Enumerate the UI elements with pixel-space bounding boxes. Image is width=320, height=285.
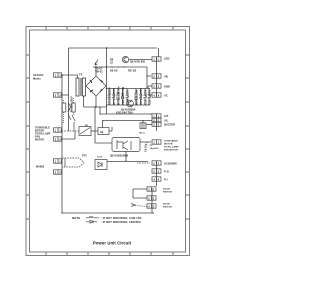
svg-text:P-I: P-I: [164, 178, 168, 182]
svg-text:DOOR: DOOR: [163, 189, 170, 191]
wire right lower bus: [152, 161, 157, 213]
svg-text:22: 22: [110, 62, 113, 65]
svg-text:4: 4: [158, 177, 160, 181]
arrow door: [131, 204, 135, 207]
svg-text:MAINS: MAINS: [36, 166, 45, 169]
svg-text:C6 2200μ16V: C6 2200μ16V: [107, 87, 111, 105]
wire motor pin stub: [62, 131, 76, 139]
connector CN pin VB: [152, 74, 161, 78]
svg-text:1: 1: [158, 140, 160, 144]
connector CN pin VC: [152, 93, 161, 97]
wire rail2: [93, 66, 147, 68]
wire main vertical: [106, 48, 108, 114]
svg-text:4: 4: [153, 93, 155, 97]
svg-text:C9 100μ/10V: C9 100μ/10V: [139, 88, 143, 105]
node rail4: [103, 120, 152, 122]
connector CN pin GND: [152, 84, 161, 88]
svg-text:1: 1: [158, 57, 160, 61]
border ticks left: [26, 55, 30, 219]
wire drop to LED pin: [158, 48, 160, 57]
svg-text:2: 2: [59, 170, 61, 174]
connector CB3 pin1: [54, 159, 62, 163]
relay Q8 box: [112, 138, 140, 152]
connector DS pin2: [147, 196, 156, 200]
svg-text:DOOR: DOOR: [163, 204, 170, 206]
svg-text:C11 1μ/50V: C11 1μ/50V: [147, 89, 151, 104]
wire Q6 to LED pin: [129, 59, 152, 61]
svg-text:RG 5Ω: RG 5Ω: [128, 70, 136, 73]
border outer frame: [26, 27, 190, 256]
svg-text:TURNTABLE: TURNTABLE: [35, 127, 50, 130]
svg-text:1: 1: [153, 140, 155, 144]
wire relay box down: [125, 152, 127, 161]
svg-text:2: 2: [148, 196, 150, 200]
svg-text:P-O: P-O: [164, 170, 169, 174]
svg-text:C7 470μ/16V: C7 470μ/16V: [112, 88, 116, 105]
svg-text:: IF NOT SPECIFIED, 1/4W ±5%: : IF NOT SPECIFIED, 1/4W ±5%: [101, 216, 142, 220]
wire relay box feed: [95, 107, 112, 143]
zener ZD6 strip4: [121, 89, 124, 106]
svg-text:C6: C6: [150, 145, 154, 147]
svg-text:1: 1: [55, 159, 57, 163]
svg-text:C10 1μ/50V: C10 1μ/50V: [143, 89, 147, 104]
buzzer BZ: [140, 123, 146, 129]
transistor Q7 regulator: [127, 100, 134, 107]
svg-text:2: 2: [59, 137, 61, 141]
wire secondary bottom rail: [84, 96, 107, 107]
wire mute rail: [107, 161, 148, 163]
svg-text:2: 2: [153, 161, 155, 165]
connector CN pin VL: [152, 118, 161, 122]
fuse F2 box: [98, 128, 109, 135]
svg-text:2: 2: [55, 93, 57, 97]
svg-text:AC100V: AC100V: [33, 73, 44, 77]
svg-text:2: 2: [59, 93, 61, 97]
border inner frame: [30, 30, 186, 252]
svg-text:3: 3: [153, 169, 155, 173]
svg-text:2: 2: [55, 137, 57, 141]
svg-text:TO/RO LAMP: TO/RO LAMP: [164, 146, 179, 149]
relay switch box: [79, 127, 91, 136]
svg-text:2: 2: [55, 170, 57, 174]
wire left bus: [61, 75, 63, 213]
wire door loop: [133, 189, 147, 198]
svg-text:BUZZER: BUZZER: [164, 122, 175, 126]
border ticks top: [46, 27, 173, 31]
svg-text:FAN MOTOR: FAN MOTOR: [164, 149, 178, 152]
svg-text:3A: 3A: [100, 130, 104, 134]
wire rail3 to pin AT: [150, 113, 152, 115]
wire buzzer to pin: [146, 124, 152, 126]
svg-text:2: 2: [153, 74, 155, 78]
wire switch row: [62, 130, 80, 132]
svg-text:A/T: A/T: [164, 114, 169, 118]
diode D7 box: [95, 160, 107, 170]
connector CB2 pin1: [54, 128, 62, 132]
connector CN pin LED: [152, 57, 161, 61]
wire cap strip bottom rail: [107, 104, 151, 106]
svg-text:C6 10μ: C6 10μ: [145, 143, 148, 152]
pin numbers: [55, 57, 160, 208]
svg-text:10μ/50V: 10μ/50V: [150, 148, 159, 150]
wire bridge top stub: [95, 67, 97, 76]
wire vb pin: [147, 67, 151, 89]
connector CB2 pin2: [54, 137, 62, 141]
wire top rail: [69, 47, 158, 49]
wire gnd pin: [148, 86, 152, 89]
svg-text:S-06: S-06: [97, 157, 103, 159]
svg-text:KSD 884 TBA: KSD 884 TBA: [116, 111, 133, 114]
capacitor C8 strip5: [126, 89, 129, 106]
connector CN pin MOTOR: [152, 140, 161, 144]
svg-text:T1: T1: [79, 73, 83, 77]
svg-text:2: 2: [158, 161, 160, 165]
svg-text:1: 1: [148, 187, 150, 191]
connector CN pin PI: [152, 177, 161, 181]
svg-text:4: 4: [158, 93, 160, 97]
wire AC pin1 to transformer: [62, 75, 78, 78]
svg-text:Q6 KSD 880: Q6 KSD 880: [130, 61, 146, 64]
svg-text:1: 1: [55, 73, 57, 77]
svg-text:ACDOWN: ACDOWN: [164, 162, 177, 166]
svg-text:F1 10A 250V: F1 10A 250V: [71, 96, 74, 112]
wire bridge bottom: [95, 96, 97, 107]
wire right upper bus: [156, 57, 158, 131]
svg-text:SWITCH: SWITCH: [163, 207, 173, 209]
svg-text:3: 3: [153, 123, 155, 127]
svg-text:3: 3: [153, 84, 155, 88]
connector DS pin3: [147, 204, 156, 208]
connector CN pin AT: [152, 114, 161, 118]
connector CB3 pin2: [54, 170, 62, 174]
fuse F1: [62, 100, 66, 124]
capacitor C7 strip2: [112, 89, 115, 106]
svg-text:GND: GND: [164, 85, 170, 89]
wire AC pin2: [62, 94, 69, 96]
node junctions: [61, 47, 154, 213]
svg-text:TURNTABLE: TURNTABLE: [164, 140, 179, 143]
resistor R7 strip3: [117, 89, 119, 106]
svg-text:ZD6 MTZ5.6B: ZD6 MTZ5.6B: [121, 87, 125, 105]
svg-text:TM-01: TM-01: [95, 71, 103, 74]
node rail3: [100, 113, 152, 115]
arrow bridge junction: [95, 60, 98, 66]
fuse F2 thermal column: [72, 98, 75, 131]
svg-text:NOTE: NOTE: [72, 216, 80, 220]
svg-text:4: 4: [153, 177, 155, 181]
svg-text:BZ-6: BZ-6: [140, 133, 146, 135]
svg-text:VB: VB: [164, 75, 168, 79]
svg-text:2: 2: [158, 74, 160, 78]
plug component PTC: [62, 158, 84, 167]
wire door dashed: [135, 206, 147, 207]
svg-text:R7 1k ½W 5%: R7 1k ½W 5%: [116, 86, 120, 105]
svg-text:SWITCH: SWITCH: [163, 192, 173, 194]
thermal switch S1: [68, 103, 71, 120]
wire rail4 drop to fuse: [102, 121, 104, 128]
svg-text:MOTOR: MOTOR: [35, 140, 44, 142]
note diode symbol: [86, 220, 97, 223]
svg-text:1: 1: [153, 57, 155, 61]
svg-text:1: 1: [59, 159, 61, 163]
capacitor C6 strip1: [108, 89, 111, 106]
border ticks right: [186, 55, 190, 219]
connector CB1 pin1: [54, 73, 62, 77]
wire relay box out: [140, 141, 151, 143]
wire fuse box stub: [109, 127, 112, 131]
svg-text:: IF NOT SPECIFIED, 1SR235A: : IF NOT SPECIFIED, 1SR235A: [101, 220, 141, 224]
capacitor C9 strip7: [139, 89, 142, 106]
svg-text:1: 1: [59, 128, 61, 132]
transistor Q6 top: [122, 56, 128, 62]
border ticks bottom: [46, 252, 173, 256]
svg-text:D6 A6: D6 A6: [110, 70, 118, 73]
svg-text:LED: LED: [164, 57, 170, 61]
svg-text:1: 1: [59, 73, 61, 77]
wire vc pin: [148, 94, 152, 96]
svg-text:1: 1: [153, 187, 155, 191]
svg-text:Power Unit Circuit: Power Unit Circuit: [93, 241, 132, 246]
wire bottom rail: [62, 212, 154, 214]
capacitor C11 strip9: [148, 89, 151, 106]
connector CN pin PO: [152, 169, 161, 173]
connector CN pin BUZZER: [152, 122, 161, 126]
connector CN pin ACDOWN: [152, 161, 161, 165]
wire acdown dashed: [137, 162, 150, 164]
svg-text:3: 3: [148, 204, 150, 208]
wire cap strip top rail: [107, 88, 151, 90]
svg-text:TO/RO LAMP: TO/RO LAMP: [35, 133, 51, 136]
connector DS pin1: [147, 187, 156, 191]
svg-text:MOTOR: MOTOR: [164, 144, 173, 146]
resistor R8 strip6: [135, 89, 137, 106]
svg-text:3: 3: [158, 169, 160, 173]
bridge rectifier D6: [86, 76, 106, 96]
svg-text:MOTOR: MOTOR: [35, 131, 44, 133]
connector CB1 pin2: [54, 93, 62, 97]
svg-text:VC: VC: [164, 94, 168, 98]
svg-text:PTC: PTC: [82, 156, 87, 158]
wire buzzer feed: [142, 121, 144, 124]
svg-text:3: 3: [158, 123, 160, 127]
svg-text:Q6 KSD2058M: Q6 KSD2058M: [110, 155, 128, 158]
wire drop to rail3: [99, 107, 101, 114]
svg-text:V/L: V/L: [164, 118, 169, 122]
svg-text:1: 1: [55, 128, 57, 132]
svg-text:2: 2: [153, 196, 155, 200]
capacitor C10 strip8: [144, 89, 147, 106]
transformer T1: [76, 78, 86, 96]
svg-text:R8 330 ¼W: R8 330 ¼W: [134, 89, 138, 104]
svg-text:3: 3: [153, 204, 155, 208]
svg-text:3: 3: [158, 84, 160, 88]
svg-text:FAN: FAN: [35, 136, 40, 139]
svg-text:Mains: Mains: [33, 77, 41, 81]
wire left drop from top rail: [68, 48, 70, 131]
note resistor symbol: [86, 216, 99, 218]
